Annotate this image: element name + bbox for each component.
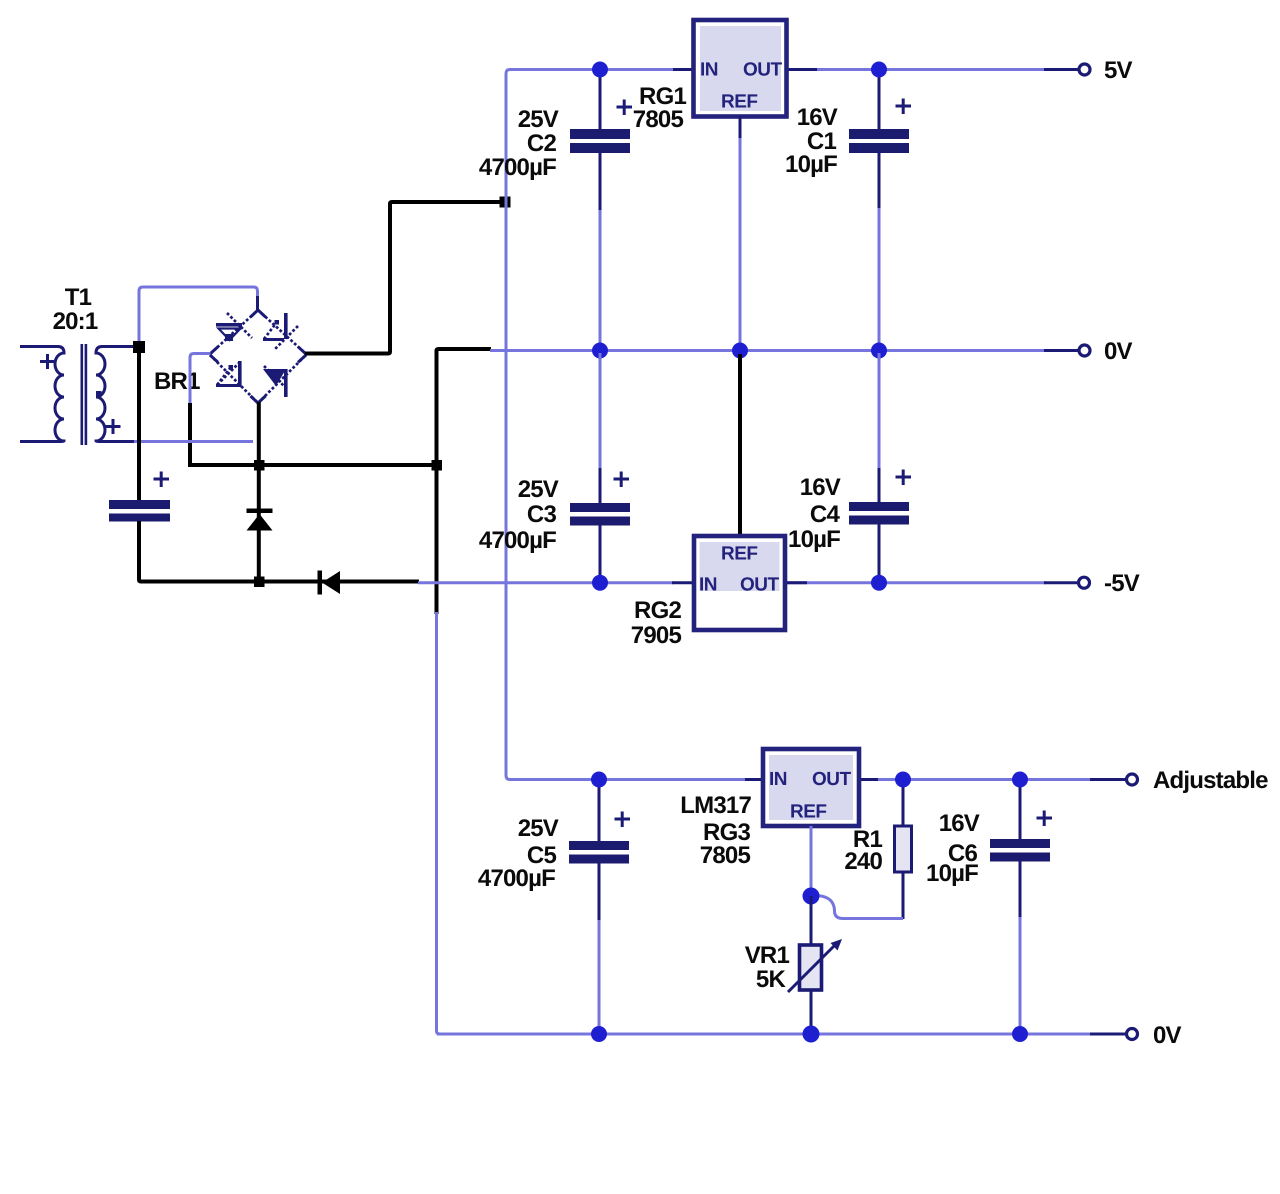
- junction dot 0V-C1 column: [871, 343, 887, 359]
- C3 plus sign: [614, 472, 630, 488]
- -5V rail dark segments: [672, 581, 1077, 584]
- capacitor C4: [849, 353, 911, 581]
- svg-text:7805: 7805: [700, 842, 751, 869]
- BR1 diamond edge top-left: [210, 310, 258, 354]
- svg-text:C4: C4: [810, 501, 841, 528]
- wire RG1 REF down to 0V rail: [739, 116, 742, 140]
- terminal 0V: [1079, 345, 1090, 356]
- svg-text:4700µF: 4700µF: [478, 865, 555, 892]
- T1 secondary winding: [96, 347, 139, 442]
- diode D-c (bottom-left of bridge): [216, 361, 242, 387]
- wire bridge left vertex to down elbow: [190, 354, 211, 405]
- T1 core: [81, 344, 84, 445]
- capacitor C1: [849, 71, 911, 348]
- C5 plus sign: [615, 812, 631, 828]
- reservoir capacitor (below T1): [109, 472, 170, 522]
- T1 secondary plus sign: [106, 419, 121, 434]
- terminal -5V: [1079, 577, 1090, 588]
- junction dot 0V-C2 column: [592, 343, 608, 359]
- svg-text:4700µF: 4700µF: [479, 527, 556, 554]
- capacitor C6: [990, 781, 1052, 1031]
- wire black main left column x=139: [137, 349, 141, 500]
- resistor R1: [895, 781, 912, 919]
- junction dot ADJ C6: [1012, 772, 1028, 788]
- junction dot -5V C4: [871, 575, 887, 591]
- svg-text:7805: 7805: [633, 106, 684, 133]
- wire below reservoir cap to corner and diode row: [139, 521, 419, 582]
- svg-text:C2: C2: [527, 130, 557, 157]
- svg-text:IN: IN: [700, 60, 718, 81]
- svg-text:LM317: LM317: [680, 792, 751, 819]
- svg-text:16V: 16V: [797, 104, 838, 131]
- junction square T1 top: [133, 341, 145, 353]
- terminal bottom 0V: [1127, 1029, 1138, 1040]
- svg-text:0V: 0V: [1104, 338, 1133, 365]
- svg-text:-5V: -5V: [1104, 570, 1140, 597]
- 0V rail (blue): [490, 349, 1046, 352]
- svg-text:VR1: VR1: [745, 942, 790, 969]
- junction dot ADJ C5: [591, 772, 607, 788]
- svg-text:5V: 5V: [1104, 57, 1133, 84]
- capacitor C2: [570, 71, 632, 348]
- wire bridge top vertex lead: [256, 296, 259, 311]
- BR1 diamond edge bottom-left: [210, 355, 258, 403]
- junction square at regulator input corner: [500, 197, 511, 208]
- T1 primary winding: [20, 347, 64, 442]
- svg-text:10µF: 10µF: [785, 151, 837, 178]
- svg-text:OUT: OUT: [743, 60, 783, 81]
- Adjustable rail dark segments: [745, 778, 1125, 781]
- svg-text:RG2: RG2: [634, 597, 681, 624]
- junction square minus row left: [254, 460, 265, 471]
- svg-text:IN: IN: [699, 575, 717, 596]
- junction dot bottom C6: [1012, 1026, 1028, 1042]
- C6 plus sign: [1037, 811, 1053, 827]
- svg-text:10µF: 10µF: [788, 526, 840, 553]
- diode D-d (bottom-right of bridge): [263, 366, 288, 397]
- BR1 vertex solid caps: [210, 310, 306, 403]
- junction dot C2 top: [592, 62, 608, 78]
- svg-text:REF: REF: [790, 802, 827, 823]
- svg-text:IN: IN: [769, 769, 787, 790]
- wire LM317 REF down: [810, 826, 813, 890]
- diode D-a (top-left of bridge): [216, 313, 252, 341]
- svg-text:25V: 25V: [518, 106, 559, 133]
- VR1 arrow: [788, 946, 834, 992]
- BR1 diamond edge top-right: [258, 310, 306, 354]
- wire minus row horizontal (y=465): [188, 463, 436, 467]
- wire black vertical 0V link x=436: [435, 350, 439, 614]
- wire black from left elbow down to minus row: [188, 403, 192, 463]
- wire T1 top junction to bridge top vertex (blue loop): [139, 287, 258, 341]
- svg-text:5K: 5K: [756, 966, 787, 993]
- 5V rail dark segments: [673, 68, 1078, 71]
- junction square minus row right: [432, 460, 443, 471]
- wire RG2 REF (black) from 0V rail down: [738, 354, 742, 536]
- regulator RG1 box: [694, 20, 787, 117]
- reservoir cap plus sign: [154, 472, 170, 488]
- junction dot -5V C3: [592, 575, 608, 591]
- C2 plus sign: [617, 100, 633, 116]
- C4 plus sign: [896, 470, 912, 486]
- 5V rail (blue): [506, 70, 674, 776]
- potentiometer VR1: [788, 896, 842, 1031]
- svg-text:C3: C3: [527, 501, 557, 528]
- bottom 0V rail (blue): [437, 1033, 1092, 1036]
- junction dot 0V-REF column: [732, 343, 748, 359]
- wire REF node hook to R1 bottom (blue): [817, 896, 903, 919]
- svg-text:4700µF: 4700µF: [479, 154, 556, 181]
- junction dot bottom VR1: [803, 1026, 820, 1043]
- -5V rail (blue): [418, 581, 1046, 584]
- protection diode D1 (vertical): [247, 509, 273, 531]
- svg-text:Adjustable: Adjustable: [1153, 767, 1268, 794]
- svg-text:10µF: 10µF: [926, 860, 978, 887]
- wire black from bridge right vertex up and to regulator input: [305, 202, 504, 354]
- bottom 0V rail dark segment: [1090, 1033, 1125, 1036]
- 5V rail right of regulator: [787, 68, 1046, 71]
- svg-text:OUT: OUT: [740, 575, 780, 596]
- T1 phase dot: [96, 391, 102, 397]
- terminal 5V: [1079, 64, 1090, 75]
- svg-text:25V: 25V: [518, 476, 559, 503]
- bridge rectifier BR1: [154, 310, 306, 403]
- svg-text:16V: 16V: [800, 474, 841, 501]
- capacitor C3: [570, 353, 630, 581]
- transformer T1: [20, 284, 139, 445]
- 0V rail dark segment: [1044, 349, 1078, 352]
- svg-text:T1: T1: [65, 284, 92, 311]
- regulator RG2 box: [694, 536, 785, 630]
- diode D-b (top-right of bridge): [263, 313, 298, 350]
- svg-text:BR1: BR1: [154, 368, 200, 395]
- Adjustable rail (blue): [506, 773, 1092, 780]
- svg-text:7905: 7905: [631, 622, 682, 649]
- svg-text:20:1: 20:1: [53, 308, 98, 335]
- svg-text:240: 240: [844, 848, 882, 875]
- regulator RG3 LM317 box: [763, 749, 859, 826]
- C1 plus sign: [896, 99, 912, 115]
- svg-text:0V: 0V: [1153, 1022, 1182, 1049]
- wire black 0V stub (top): [437, 349, 492, 351]
- BR1 diamond edge bottom-right: [258, 355, 306, 403]
- T1 primary plus sign: [40, 354, 55, 369]
- terminal Adjustable: [1127, 774, 1138, 785]
- wire blue vertical 0V link x=436 lower part: [437, 612, 441, 1034]
- junction dot ADJ R1: [895, 772, 911, 788]
- junction dot C1 top: [871, 62, 887, 78]
- svg-text:REF: REF: [721, 544, 758, 565]
- junction square diode row: [254, 577, 265, 588]
- wire T1 bottom to bridge area (blue): [134, 440, 253, 443]
- junction dot bottom C5: [591, 1026, 607, 1042]
- protection diode D2 (horizontal, pointing left): [318, 571, 341, 595]
- svg-text:25V: 25V: [518, 815, 559, 842]
- svg-text:16V: 16V: [939, 810, 980, 837]
- wire bridge bottom vertex down to diode row: [257, 402, 261, 582]
- junction dot REF node: [803, 888, 820, 905]
- svg-text:REF: REF: [721, 92, 758, 113]
- capacitor C5: [569, 781, 630, 1031]
- svg-text:OUT: OUT: [812, 769, 852, 790]
